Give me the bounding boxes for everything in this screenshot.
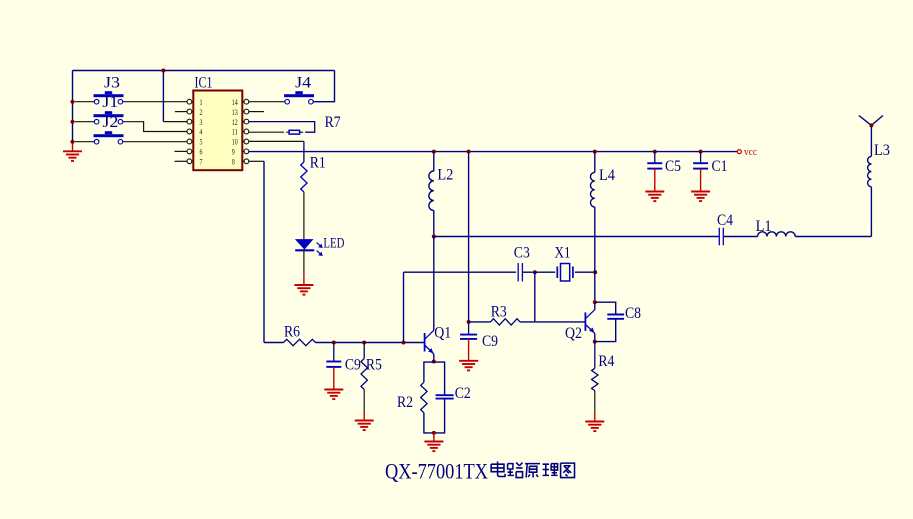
svg-text:R1: R1 <box>310 155 326 172</box>
svg-text:J3: J3 <box>104 75 120 92</box>
svg-text:J4: J4 <box>295 75 311 92</box>
svg-text:C1: C1 <box>712 158 728 175</box>
svg-text:14: 14 <box>232 98 238 107</box>
svg-text:4: 4 <box>200 128 203 137</box>
svg-text:vcc: vcc <box>744 147 758 158</box>
svg-text:11: 11 <box>232 128 238 137</box>
svg-text:X1: X1 <box>555 245 571 262</box>
svg-text:7: 7 <box>200 158 203 167</box>
svg-text:Q1: Q1 <box>434 325 451 342</box>
svg-text:C3: C3 <box>514 245 530 262</box>
svg-text:C2: C2 <box>455 385 471 402</box>
svg-text:LED: LED <box>323 236 344 252</box>
svg-text:12: 12 <box>232 118 238 127</box>
svg-text:9: 9 <box>232 148 235 157</box>
svg-text:R3: R3 <box>491 304 507 321</box>
svg-text:C4: C4 <box>717 212 733 229</box>
svg-text:J1: J1 <box>102 94 118 111</box>
svg-text:6: 6 <box>200 148 203 157</box>
svg-text:C8: C8 <box>625 305 641 322</box>
svg-text:13: 13 <box>232 108 238 117</box>
svg-text:R4: R4 <box>598 353 614 370</box>
svg-text:3: 3 <box>200 118 203 127</box>
svg-text:R6: R6 <box>284 324 300 341</box>
svg-text:C5: C5 <box>665 158 681 175</box>
svg-text:2: 2 <box>200 108 203 117</box>
svg-text:L4: L4 <box>599 167 615 184</box>
svg-text:R7: R7 <box>325 114 341 131</box>
svg-text:L2: L2 <box>437 166 453 183</box>
svg-text:1: 1 <box>200 98 203 107</box>
svg-text:C9: C9 <box>345 357 361 374</box>
svg-text:L3: L3 <box>874 142 890 159</box>
svg-text:R2: R2 <box>397 394 413 411</box>
svg-text:IC1: IC1 <box>195 75 213 92</box>
svg-text:8: 8 <box>232 158 235 167</box>
svg-text:QX-77001TX: QX-77001TX <box>385 459 488 484</box>
svg-text:R5: R5 <box>366 357 382 374</box>
svg-text:J2: J2 <box>102 114 118 131</box>
svg-text:C9: C9 <box>482 333 498 350</box>
svg-text:Q2: Q2 <box>565 325 582 342</box>
svg-text:5: 5 <box>200 138 203 147</box>
svg-text:L1: L1 <box>756 218 772 235</box>
svg-text:10: 10 <box>232 138 238 147</box>
